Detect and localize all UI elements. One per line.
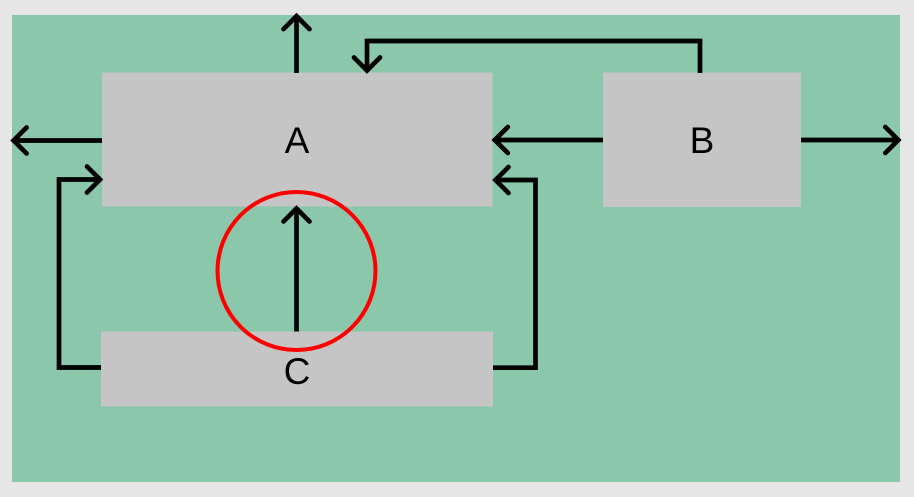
block C: [101, 332, 493, 407]
svg-text:A: A: [285, 120, 310, 161]
elbow connector B top to A top: [354, 41, 700, 73]
svg-text:B: B: [690, 120, 715, 161]
arrow right out of B: [801, 127, 898, 153]
block B: [603, 73, 801, 208]
arrow C top to A bottom (circled): [284, 209, 310, 332]
elbow connector C right to A right: [493, 167, 536, 368]
red highlight circle: [218, 192, 376, 350]
block A: [102, 73, 493, 207]
arrow left out of A: [14, 128, 102, 154]
arrow up out of A top: [284, 16, 310, 73]
svg-text:C: C: [284, 351, 311, 392]
elbow connector C left to A left: [59, 167, 101, 368]
arrow B to A: [495, 127, 603, 153]
